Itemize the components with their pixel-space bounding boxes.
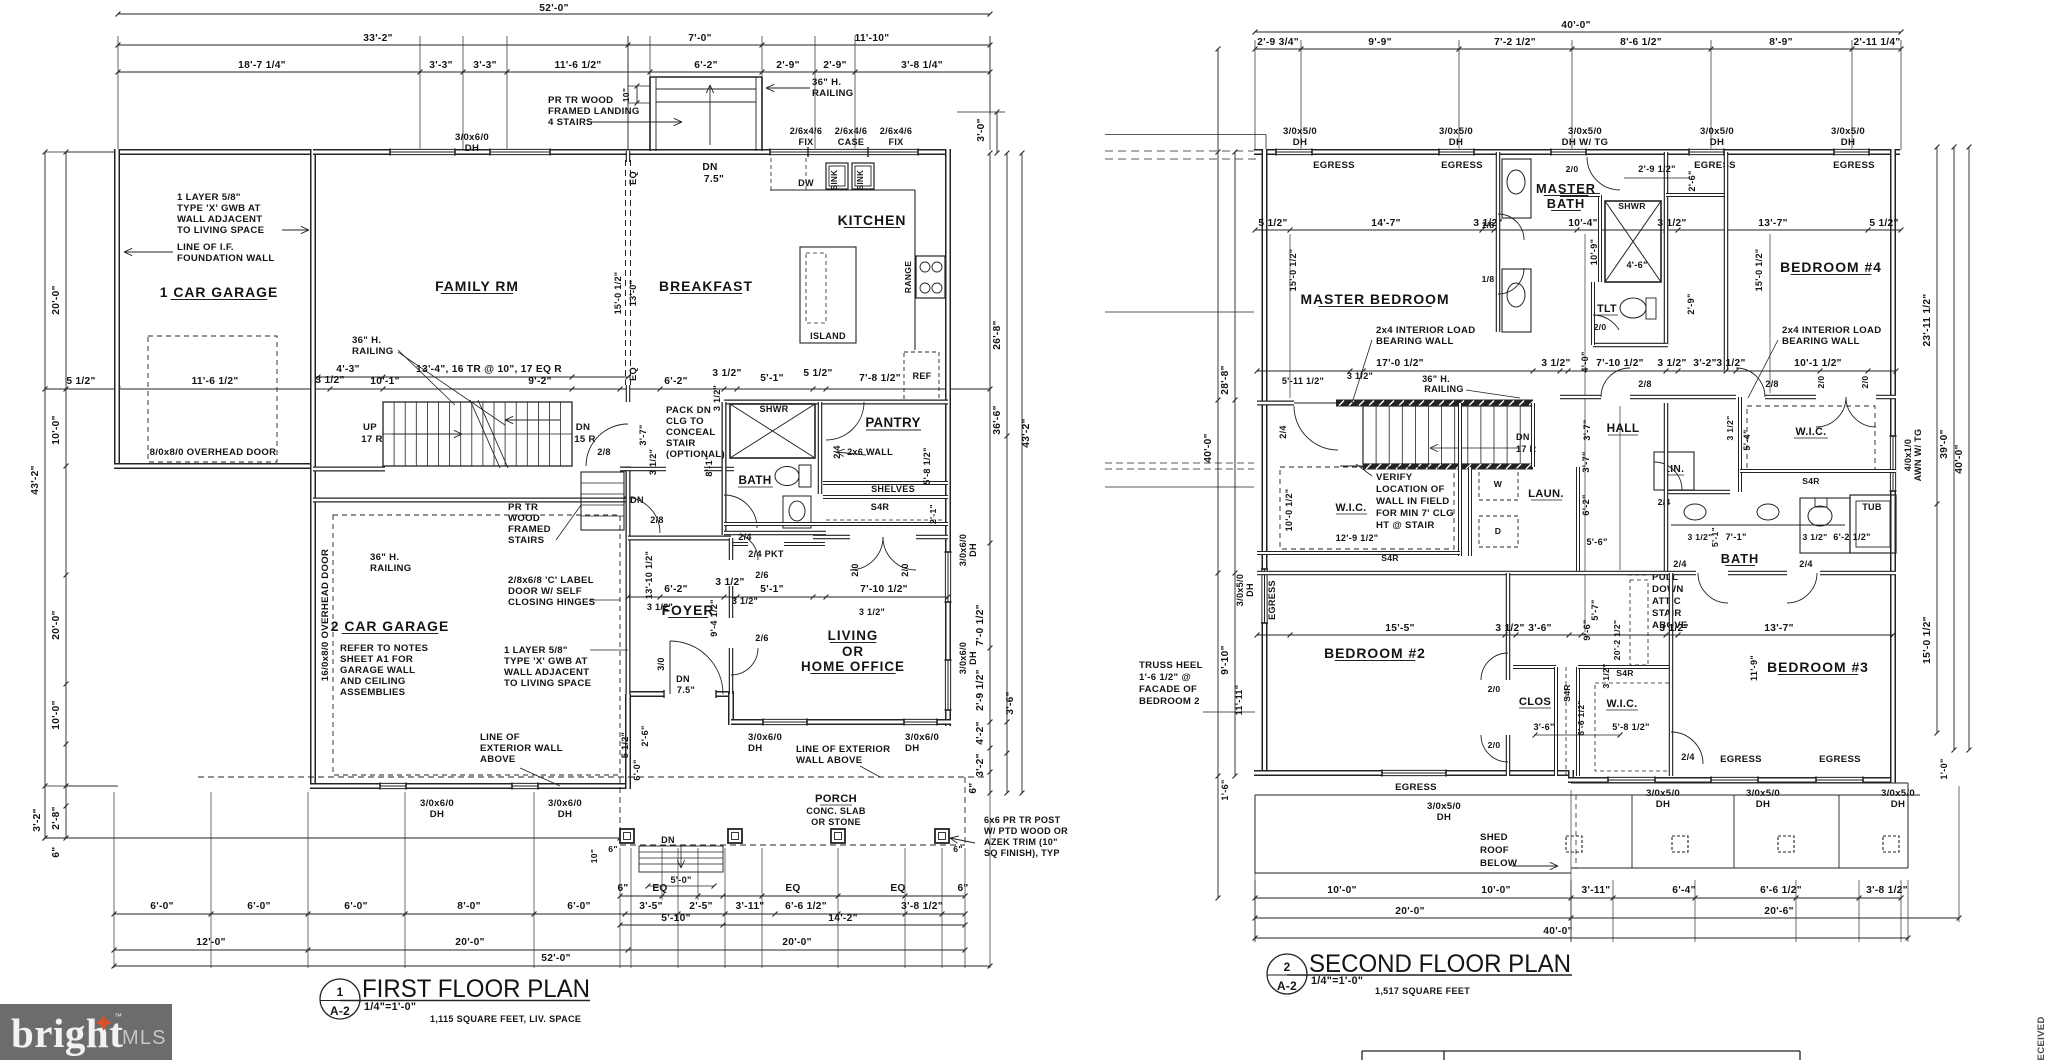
svg-text:10'-4": 10'-4" (1568, 218, 1597, 229)
svg-text:3 1/2": 3 1/2" (1659, 623, 1688, 634)
svg-text:18'-7 1/4": 18'-7 1/4" (238, 60, 286, 71)
svg-text:7'-2 1/2": 7'-2 1/2" (1494, 37, 1536, 48)
svg-text:HT @ STAIR: HT @ STAIR (1376, 520, 1435, 531)
svg-text:5'-8 1/2": 5'-8 1/2" (1612, 722, 1650, 732)
svg-text:DN: DN (630, 495, 644, 505)
svg-text:3 1/2": 3 1/2" (315, 375, 344, 386)
svg-text:2/0: 2/0 (850, 563, 860, 577)
svg-text:BEARING WALL: BEARING WALL (1376, 336, 1454, 347)
svg-text:DH: DH (1449, 137, 1463, 148)
svg-text:4'-3": 4'-3" (336, 364, 359, 375)
svg-text:PORCH: PORCH (815, 793, 857, 805)
svg-text:EGRESS: EGRESS (1267, 580, 1277, 620)
svg-text:1/4"=1'-0": 1/4"=1'-0" (364, 1001, 416, 1013)
svg-text:2/4: 2/4 (1673, 559, 1687, 569)
svg-text:12'-9 1/2": 12'-9 1/2" (1336, 533, 1379, 543)
svg-text:BEDROOM #2: BEDROOM #2 (1324, 645, 1426, 661)
svg-text:PR TR: PR TR (508, 502, 538, 513)
svg-text:D: D (1495, 526, 1502, 536)
svg-text:RECEIVED: RECEIVED (2036, 1016, 2047, 1060)
svg-text:DOOR W/ SELF: DOOR W/ SELF (508, 586, 582, 597)
svg-text:2/4: 2/4 (1799, 559, 1813, 569)
svg-text:7.5": 7.5" (704, 174, 724, 185)
svg-text:FIX: FIX (888, 137, 903, 147)
svg-text:10'-0": 10'-0" (1481, 885, 1510, 896)
svg-text:2'-9": 2'-9" (776, 60, 799, 71)
svg-text:6'-0": 6'-0" (247, 901, 270, 912)
svg-text:10'-1 1/2": 10'-1 1/2" (1794, 358, 1842, 369)
svg-text:2'-6": 2'-6" (640, 725, 650, 746)
svg-text:3 1/2": 3 1/2" (1716, 358, 1745, 369)
svg-text:3 1/2": 3 1/2" (1803, 532, 1828, 542)
svg-text:20'-0": 20'-0" (455, 937, 484, 948)
svg-text:3 1/2": 3 1/2" (1495, 623, 1524, 634)
svg-text:26'-8": 26'-8" (992, 320, 1003, 349)
svg-text:20'-0": 20'-0" (1395, 906, 1424, 917)
svg-text:2/8: 2/8 (597, 447, 611, 457)
svg-text:TYPE 'X' GWB AT: TYPE 'X' GWB AT (504, 656, 588, 667)
svg-text:MLS: MLS (122, 1027, 167, 1049)
svg-text:EGRESS: EGRESS (1833, 160, 1875, 171)
svg-text:BATH: BATH (1721, 551, 1760, 566)
svg-text:2/0: 2/0 (1860, 376, 1870, 389)
svg-text:EQ: EQ (652, 883, 667, 894)
svg-text:5 1/2": 5 1/2" (1258, 218, 1287, 229)
svg-text:A-2: A-2 (330, 1004, 350, 1018)
svg-text:6'-2": 6'-2" (664, 376, 687, 387)
svg-text:DH: DH (968, 543, 978, 557)
svg-text:TO LIVING SPACE: TO LIVING SPACE (177, 225, 265, 236)
svg-text:GARAGE WALL: GARAGE WALL (340, 665, 415, 676)
svg-text:14'-2": 14'-2" (828, 913, 857, 924)
svg-text:ABOVE: ABOVE (480, 754, 516, 765)
svg-text:S4R: S4R (1616, 668, 1634, 678)
svg-text:2/6x4/6: 2/6x4/6 (835, 126, 867, 136)
svg-text:5'-7": 5'-7" (1590, 599, 1600, 620)
svg-text:TLT: TLT (1597, 303, 1617, 315)
svg-text:™: ™ (114, 1012, 122, 1021)
svg-text:3 1/2": 3 1/2" (1347, 371, 1373, 381)
svg-text:DH: DH (968, 651, 978, 665)
svg-text:3'-6": 3'-6" (1533, 722, 1554, 732)
svg-text:W/ PTD WOOD OR: W/ PTD WOOD OR (984, 826, 1068, 836)
svg-text:SHWR: SHWR (760, 404, 789, 414)
svg-text:2'-9": 2'-9" (1686, 293, 1696, 314)
svg-text:EGRESS: EGRESS (1694, 160, 1736, 171)
svg-text:16/0x8/0 OVERHEAD DOOR: 16/0x8/0 OVERHEAD DOOR (320, 549, 331, 681)
svg-text:3 1/2": 3 1/2" (712, 385, 722, 411)
svg-text:2/6: 2/6 (755, 633, 769, 643)
svg-text:6'-2": 6'-2" (664, 584, 687, 595)
svg-text:36" H.: 36" H. (1422, 374, 1450, 384)
svg-text:TYPE 'X' GWB AT: TYPE 'X' GWB AT (177, 203, 261, 214)
svg-text:1'-6": 1'-6" (1220, 779, 1230, 800)
svg-text:13'-7": 13'-7" (1758, 218, 1787, 229)
svg-text:SHELVES: SHELVES (871, 484, 915, 494)
svg-text:RAILING: RAILING (370, 563, 412, 574)
svg-text:BEDROOM #3: BEDROOM #3 (1767, 659, 1869, 675)
svg-text:PACK DN: PACK DN (666, 405, 711, 416)
svg-text:2/8: 2/8 (650, 515, 664, 525)
svg-text:3 1/2": 3 1/2" (732, 596, 758, 606)
svg-text:5 1/2": 5 1/2" (620, 732, 630, 758)
svg-text:43'-2": 43'-2" (30, 465, 41, 494)
svg-text:ISLAND: ISLAND (810, 331, 846, 341)
svg-text:STAIRS: STAIRS (508, 535, 545, 546)
svg-text:3 1/2": 3 1/2" (1541, 358, 1570, 369)
svg-text:28'-8": 28'-8" (1220, 365, 1231, 394)
svg-text:17 R: 17 R (361, 434, 382, 445)
svg-text:40'-0": 40'-0" (1561, 20, 1590, 31)
svg-text:8'-6 1/2": 8'-6 1/2" (1620, 37, 1662, 48)
svg-text:5'-8 1/2": 5'-8 1/2" (922, 447, 932, 485)
svg-text:11'-9": 11'-9" (1749, 655, 1759, 681)
svg-text:3'-3": 3'-3" (429, 60, 452, 71)
svg-text:FOR MIN 7' CLG: FOR MIN 7' CLG (1376, 508, 1454, 519)
svg-text:W.I.C.: W.I.C. (1336, 502, 1367, 514)
svg-text:5'-4": 5'-4" (1742, 429, 1752, 450)
svg-text:5 1/2": 5 1/2" (66, 376, 95, 387)
svg-text:6": 6" (617, 883, 628, 894)
svg-text:DH: DH (1841, 137, 1855, 148)
svg-text:6'-4": 6'-4" (1672, 885, 1695, 896)
svg-text:9'-10": 9'-10" (1220, 645, 1231, 674)
svg-text:DOWN: DOWN (1652, 584, 1684, 595)
svg-text:FAMILY RM: FAMILY RM (435, 278, 519, 294)
svg-text:UP: UP (363, 422, 377, 433)
svg-text:10'-1": 10'-1" (370, 376, 399, 387)
svg-text:2'-9 1/2": 2'-9 1/2" (975, 669, 986, 711)
svg-text:PR TR WOOD: PR TR WOOD (548, 95, 613, 106)
svg-text:3 1/2": 3 1/2" (712, 368, 741, 379)
svg-text:DH: DH (1756, 799, 1770, 810)
svg-text:3'-7": 3'-7" (1582, 419, 1592, 440)
svg-text:6'-2 1/2": 6'-2 1/2" (1833, 532, 1871, 542)
svg-text:FRAMED LANDING: FRAMED LANDING (548, 106, 640, 117)
svg-text:3/0x5/0: 3/0x5/0 (1235, 574, 1245, 606)
svg-text:bright: bright (11, 1010, 123, 1056)
svg-text:TO LIVING SPACE: TO LIVING SPACE (504, 678, 592, 689)
svg-text:RANGE: RANGE (903, 261, 913, 294)
svg-text:8'-9": 8'-9" (1769, 37, 1792, 48)
svg-text:3 1/2": 3 1/2" (1657, 358, 1686, 369)
svg-text:EGRESS: EGRESS (1819, 754, 1861, 765)
svg-text:2x4 INTERIOR LOAD: 2x4 INTERIOR LOAD (1376, 325, 1475, 336)
svg-text:11'-6 1/2": 11'-6 1/2" (191, 376, 238, 387)
svg-text:1/4"=1'-0": 1/4"=1'-0" (1311, 975, 1363, 987)
svg-text:40'-0": 40'-0" (1543, 926, 1572, 937)
svg-text:2/0: 2/0 (1566, 164, 1579, 174)
svg-text:10'-0": 10'-0" (1327, 885, 1356, 896)
svg-text:EGRESS: EGRESS (1395, 782, 1437, 793)
svg-text:CONCEAL: CONCEAL (666, 427, 716, 438)
svg-text:3/0x5/0: 3/0x5/0 (1646, 788, 1680, 799)
svg-text:36" H.: 36" H. (812, 77, 841, 88)
svg-text:AND CEILING: AND CEILING (340, 676, 406, 687)
svg-text:13'-0": 13'-0" (628, 280, 638, 306)
svg-text:RAILING: RAILING (352, 346, 394, 357)
svg-text:8'-0": 8'-0" (457, 901, 480, 912)
svg-text:9'-2": 9'-2" (528, 376, 551, 387)
svg-text:3'-7": 3'-7" (1581, 451, 1591, 472)
svg-text:WOOD: WOOD (508, 513, 540, 524)
svg-text:STAIR: STAIR (666, 438, 696, 449)
svg-text:1,517 SQUARE FEET: 1,517 SQUARE FEET (1375, 986, 1470, 996)
svg-text:1'-0": 1'-0" (1939, 758, 1949, 779)
svg-text:7.5": 7.5" (677, 685, 695, 695)
svg-text:MASTER: MASTER (1536, 181, 1596, 196)
svg-text:EXTERIOR WALL: EXTERIOR WALL (480, 743, 563, 754)
svg-text:7'-10 1/2": 7'-10 1/2" (1596, 358, 1644, 369)
svg-text:4'-6": 4'-6" (1626, 260, 1647, 270)
svg-text:FOYER: FOYER (662, 602, 715, 618)
svg-text:2'-9 3/4": 2'-9 3/4" (1257, 37, 1299, 48)
svg-text:5 1/2": 5 1/2" (803, 368, 832, 379)
svg-text:6": 6" (51, 846, 62, 857)
svg-text:DH: DH (1710, 137, 1724, 148)
svg-text:3/0x5/0: 3/0x5/0 (1746, 788, 1780, 799)
svg-text:TUB: TUB (1862, 502, 1882, 512)
svg-text:2x4 INTERIOR LOAD: 2x4 INTERIOR LOAD (1782, 325, 1881, 336)
svg-text:7'-10 1/2": 7'-10 1/2" (860, 584, 908, 595)
svg-text:11'-11": 11'-11" (1234, 685, 1244, 716)
svg-text:6'-6 1/2": 6'-6 1/2" (1760, 885, 1802, 896)
svg-text:3/0x6/0: 3/0x6/0 (420, 798, 454, 809)
svg-text:3/0x5/0: 3/0x5/0 (1568, 126, 1602, 137)
svg-text:6'-2": 6'-2" (694, 60, 717, 71)
svg-text:10'-0": 10'-0" (51, 700, 62, 729)
svg-text:6": 6" (968, 782, 979, 793)
svg-text:WALL ADJACENT: WALL ADJACENT (177, 214, 262, 225)
svg-text:20'-2 1/2": 20'-2 1/2" (1612, 620, 1622, 661)
svg-text:3 1/2": 3 1/2" (648, 449, 658, 475)
svg-text:2/0: 2/0 (1816, 376, 1826, 389)
svg-text:6": 6" (957, 883, 968, 894)
svg-text:13'-4", 16 TR @ 10", 17 EQ R: 13'-4", 16 TR @ 10", 17 EQ R (416, 364, 562, 375)
svg-text:MASTER BEDROOM: MASTER BEDROOM (1300, 291, 1449, 307)
svg-text:PANTRY: PANTRY (865, 415, 920, 430)
svg-text:BREAKFAST: BREAKFAST (659, 278, 753, 294)
svg-text:2/4: 2/4 (1278, 425, 1288, 439)
svg-text:1: 1 (337, 985, 344, 999)
svg-text:OR STONE: OR STONE (811, 817, 861, 827)
svg-text:LOCATION OF: LOCATION OF (1376, 484, 1445, 495)
svg-text:BATH: BATH (1547, 196, 1586, 211)
svg-text:3/0x6/0: 3/0x6/0 (905, 732, 939, 743)
svg-text:3/0x5/0: 3/0x5/0 (1427, 801, 1461, 812)
svg-text:7'-0": 7'-0" (688, 33, 711, 44)
svg-text:11'-6 1/2": 11'-6 1/2" (554, 60, 601, 71)
svg-text:SHEET A1 FOR: SHEET A1 FOR (340, 654, 413, 665)
svg-text:5'-11 1/2": 5'-11 1/2" (1282, 376, 1324, 386)
svg-text:10": 10" (589, 849, 599, 864)
svg-text:DH: DH (748, 743, 762, 754)
svg-text:DH: DH (430, 809, 444, 820)
svg-text:3'-6": 3'-6" (1005, 691, 1016, 714)
svg-text:KITCHEN: KITCHEN (838, 212, 907, 228)
svg-text:6'-0": 6'-0" (344, 901, 367, 912)
svg-text:CASE: CASE (838, 137, 864, 147)
svg-text:LINE OF EXTERIOR: LINE OF EXTERIOR (796, 744, 890, 755)
svg-text:EQ: EQ (628, 171, 638, 185)
svg-text:1'-6 1/2" @: 1'-6 1/2" @ (1139, 672, 1191, 683)
svg-text:BEARING WALL: BEARING WALL (1782, 336, 1860, 347)
svg-text:3'-6": 3'-6" (1528, 623, 1551, 634)
svg-text:33'-2": 33'-2" (363, 33, 392, 44)
svg-text:3 1/2": 3 1/2" (1688, 532, 1713, 542)
svg-text:3 1/2": 3 1/2" (1601, 664, 1611, 689)
svg-text:S4R: S4R (1562, 684, 1572, 702)
svg-text:3/0x5/0: 3/0x5/0 (1439, 126, 1473, 137)
svg-text:2x6 WALL: 2x6 WALL (847, 447, 893, 457)
svg-text:17'-0 1/2": 17'-0 1/2" (1376, 358, 1424, 369)
svg-text:FACADE OF: FACADE OF (1139, 684, 1197, 695)
svg-text:1/8: 1/8 (1482, 274, 1495, 284)
svg-text:2: 2 (1284, 960, 1291, 974)
svg-text:WALL ADJACENT: WALL ADJACENT (504, 667, 589, 678)
svg-text:DH: DH (558, 809, 572, 820)
svg-text:FIX: FIX (798, 137, 813, 147)
svg-text:3/0x5/0: 3/0x5/0 (1700, 126, 1734, 137)
svg-text:3'-11": 3'-11" (736, 901, 765, 912)
svg-text:ASSEMBLIES: ASSEMBLIES (340, 687, 406, 698)
svg-text:DN: DN (1516, 432, 1530, 442)
svg-text:15'-0 1/2": 15'-0 1/2" (613, 272, 623, 315)
svg-text:SINK: SINK (856, 170, 865, 190)
svg-text:9'-9": 9'-9" (1368, 37, 1391, 48)
svg-text:23'-11 1/2": 23'-11 1/2" (1922, 293, 1933, 346)
svg-text:AWN W/ TG: AWN W/ TG (1913, 429, 1923, 482)
svg-text:3'-3": 3'-3" (473, 60, 496, 71)
svg-text:3/0: 3/0 (656, 657, 666, 671)
svg-text:W.I.C.: W.I.C. (1796, 426, 1827, 438)
svg-text:5'-0": 5'-0" (670, 875, 691, 885)
svg-text:40'-0": 40'-0" (1203, 433, 1214, 462)
svg-text:WALL IN FIELD: WALL IN FIELD (1376, 496, 1450, 507)
svg-text:52'-0": 52'-0" (541, 953, 570, 964)
svg-text:CLG TO: CLG TO (666, 416, 704, 427)
svg-text:DH: DH (1245, 583, 1255, 597)
svg-text:10'-0 1/2": 10'-0 1/2" (1284, 489, 1294, 532)
svg-text:3/0x6/0: 3/0x6/0 (748, 732, 782, 743)
svg-text:3'-8 1/2": 3'-8 1/2" (1866, 885, 1908, 896)
svg-text:39'-0": 39'-0" (1939, 429, 1950, 458)
svg-text:CONC. SLAB: CONC. SLAB (806, 806, 866, 816)
svg-text:2/8: 2/8 (1765, 379, 1779, 389)
svg-text:7'-8 1/2": 7'-8 1/2" (859, 373, 901, 384)
svg-text:EQ: EQ (785, 883, 800, 894)
svg-text:7'-1": 7'-1" (1725, 532, 1746, 542)
svg-text:2/6x4/6: 2/6x4/6 (880, 126, 912, 136)
svg-text:10'-9": 10'-9" (1589, 239, 1599, 265)
svg-text:4'-2": 4'-2" (975, 721, 986, 744)
svg-text:3/0x5/0: 3/0x5/0 (1881, 788, 1915, 799)
svg-text:2/0: 2/0 (1488, 684, 1501, 694)
svg-text:SQ FINISH), TYP: SQ FINISH), TYP (984, 848, 1060, 858)
svg-text:3'-0": 3'-0" (976, 118, 987, 141)
svg-text:OR: OR (842, 644, 864, 659)
svg-text:6'-0": 6'-0" (567, 901, 590, 912)
svg-text:A-2: A-2 (1277, 979, 1297, 993)
svg-text:LIVING: LIVING (828, 628, 879, 643)
svg-text:2/0: 2/0 (900, 563, 910, 577)
svg-text:1 LAYER 5/8": 1 LAYER 5/8" (177, 192, 241, 203)
svg-text:2 CAR GARAGE: 2 CAR GARAGE (331, 618, 450, 634)
svg-text:2/6: 2/6 (755, 570, 769, 580)
svg-text:3/0x6/0: 3/0x6/0 (548, 798, 582, 809)
svg-text:FOUNDATION WALL: FOUNDATION WALL (177, 253, 275, 264)
svg-text:BATH: BATH (738, 473, 771, 487)
svg-text:3'-2": 3'-2" (32, 808, 43, 831)
svg-text:2/0: 2/0 (1488, 740, 1501, 750)
svg-text:3'-2": 3'-2" (975, 753, 986, 776)
svg-text:13'-10 1/2": 13'-10 1/2" (644, 551, 654, 599)
svg-text:1 LAYER 5/8": 1 LAYER 5/8" (504, 645, 568, 656)
svg-text:BELOW: BELOW (1480, 858, 1518, 869)
svg-text:5'-10": 5'-10" (661, 913, 690, 924)
svg-text:52'-0": 52'-0" (539, 3, 568, 14)
svg-text:5'-1": 5'-1" (760, 584, 783, 595)
svg-text:W: W (1494, 479, 1503, 489)
svg-text:3/0x6/0: 3/0x6/0 (455, 132, 489, 143)
svg-text:2/6x4/6: 2/6x4/6 (790, 126, 822, 136)
svg-text:DH: DH (465, 143, 479, 154)
svg-text:DH: DH (1293, 137, 1307, 148)
svg-text:SINK: SINK (830, 170, 839, 190)
svg-text:CLOSING HINGES: CLOSING HINGES (508, 597, 596, 608)
svg-text:WALL ABOVE: WALL ABOVE (796, 755, 863, 766)
svg-text:2'-8": 2'-8" (51, 806, 62, 829)
svg-text:DH: DH (1891, 799, 1905, 810)
svg-text:3/0x6/0: 3/0x6/0 (958, 534, 968, 566)
svg-text:4'-0": 4'-0" (1580, 351, 1590, 372)
svg-text:1,115 SQUARE FEET, LIV. SPACE: 1,115 SQUARE FEET, LIV. SPACE (430, 1014, 581, 1024)
svg-text:8'-1": 8'-1" (704, 455, 714, 476)
svg-text:3/0x6/0: 3/0x6/0 (958, 642, 968, 674)
svg-text:6x6 PR TR POST: 6x6 PR TR POST (984, 815, 1061, 825)
svg-text:43'-2": 43'-2" (1021, 418, 1032, 447)
svg-text:40'-0": 40'-0" (1954, 444, 1965, 473)
svg-text:6'-6 1/2": 6'-6 1/2" (1576, 700, 1586, 736)
svg-text:VERIFY: VERIFY (1376, 472, 1413, 483)
svg-text:SECOND FLOOR PLAN: SECOND FLOOR PLAN (1309, 950, 1571, 978)
svg-text:13'-7": 13'-7" (1764, 623, 1793, 634)
svg-text:BEDROOM #4: BEDROOM #4 (1780, 259, 1882, 275)
svg-text:S4R: S4R (871, 502, 890, 512)
svg-text:36" H.: 36" H. (370, 552, 399, 563)
svg-text:1 CAR GARAGE: 1 CAR GARAGE (160, 284, 279, 300)
svg-text:LINE OF I.F.: LINE OF I.F. (177, 242, 234, 253)
svg-text:2'-9": 2'-9" (823, 60, 846, 71)
svg-text:HALL: HALL (1607, 421, 1640, 435)
svg-text:14'-7": 14'-7" (1371, 218, 1400, 229)
svg-text:(OPTIONAL): (OPTIONAL) (666, 449, 725, 460)
svg-text:20'-0": 20'-0" (51, 285, 62, 314)
svg-text:DN: DN (661, 835, 675, 845)
svg-text:2/4: 2/4 (738, 532, 752, 542)
svg-text:20'-0": 20'-0" (782, 937, 811, 948)
svg-text:3'-11": 3'-11" (1582, 885, 1611, 896)
svg-text:3'-5": 3'-5" (639, 901, 662, 912)
svg-text:15'-0 1/2": 15'-0 1/2" (1754, 249, 1764, 292)
svg-text:4/0x1/0: 4/0x1/0 (1903, 439, 1913, 471)
svg-text:1/8: 1/8 (1482, 220, 1495, 230)
svg-text:DN: DN (576, 422, 590, 433)
svg-text:3/0x5/0: 3/0x5/0 (1283, 126, 1317, 137)
svg-text:2/4 PKT: 2/4 PKT (748, 549, 784, 559)
svg-text:2/0: 2/0 (1594, 322, 1607, 332)
svg-text:DH: DH (905, 743, 919, 754)
